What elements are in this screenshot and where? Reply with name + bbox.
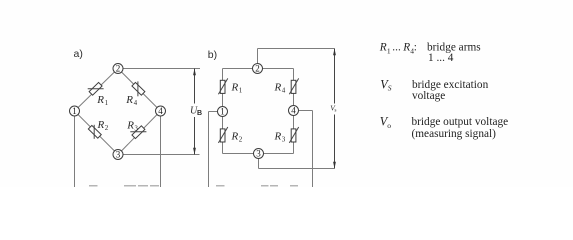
svg-text:...: ...	[392, 42, 401, 54]
svg-text:2: 2	[116, 64, 121, 74]
Vs arrow up	[333, 49, 336, 56]
svg-text:R: R	[125, 94, 133, 106]
svg-text:voltage: voltage	[412, 90, 445, 102]
svg-text::: :	[414, 42, 417, 54]
svg-text:3: 3	[134, 124, 138, 132]
Vs arrow down	[333, 162, 336, 169]
wire left side (bridge b)	[222, 69, 224, 154]
UB measure line lower segment	[194, 117, 196, 155]
svg-text:1: 1	[239, 87, 243, 95]
node 1 (bridge a)	[70, 106, 80, 116]
svg-text:R: R	[96, 94, 104, 106]
wire node1b down	[208, 112, 210, 188]
wire top side (bridge b)	[223, 68, 294, 70]
resistor R1 (bridge b)	[220, 80, 225, 93]
resistor R3 (bridge b)	[291, 129, 296, 142]
svg-text:R: R	[274, 82, 282, 94]
wire right side (bridge b)	[293, 69, 295, 154]
UB arrow down	[193, 148, 196, 155]
wire arm node1-node3 (bridge a)	[75, 111, 119, 155]
wire node1b stub left	[209, 111, 218, 113]
svg-text:3: 3	[282, 136, 286, 144]
svg-text:1: 1	[220, 107, 225, 117]
node 2 (bridge b)	[253, 64, 263, 74]
Vs measure line upper segment	[334, 49, 336, 104]
node 1 (bridge b)	[218, 107, 228, 117]
wire node3 to UB line	[123, 154, 200, 156]
svg-text:1: 1	[72, 106, 77, 116]
wire node2b stub up	[257, 49, 259, 64]
svg-text:2: 2	[239, 136, 243, 144]
svg-text:1 ... 4: 1 ... 4	[428, 52, 454, 64]
node 4 (bridge b)	[289, 106, 299, 116]
svg-text:4: 4	[282, 87, 286, 95]
wire node3b to Vs line	[259, 168, 335, 170]
wire node2 to UB line	[123, 68, 200, 70]
svg-text:R: R	[379, 42, 387, 54]
svg-text:R: R	[126, 119, 134, 131]
UB measure line upper segment	[194, 69, 196, 104]
svg-text:s: s	[335, 109, 337, 114]
svg-text:S: S	[388, 84, 392, 93]
svg-text:B: B	[197, 110, 202, 117]
svg-text:(measuring signal): (measuring signal)	[412, 128, 497, 140]
svg-text:1: 1	[105, 99, 109, 107]
wire node1 down	[74, 116, 76, 187]
resistor R3 (bridge a)	[132, 126, 145, 139]
wire node3b stub down	[258, 159, 260, 169]
svg-text:R: R	[231, 131, 239, 143]
wire arm node3-node4 (bridge a)	[118, 111, 161, 155]
svg-text:b): b)	[208, 49, 217, 61]
svg-text:a): a)	[74, 48, 83, 60]
resistor R2 (bridge a)	[88, 125, 101, 138]
resistor R2 (bridge b)	[220, 129, 225, 142]
svg-text:3: 3	[116, 150, 121, 160]
wire node2b to Vs line	[258, 48, 335, 50]
wire node4 down	[160, 116, 162, 187]
svg-text:1: 1	[387, 46, 391, 55]
resistor R4 (bridge a)	[132, 82, 145, 95]
node 4 (bridge a)	[156, 106, 166, 116]
svg-text:3: 3	[256, 149, 261, 159]
svg-text:R: R	[402, 42, 410, 54]
resistor R4 (bridge b)	[291, 80, 296, 93]
Vs measure line lower segment	[334, 115, 336, 169]
wire node4b down	[312, 111, 314, 188]
resistor R1 (bridge a)	[89, 82, 102, 95]
node 3 (bridge a)	[113, 150, 123, 160]
svg-text:bridge output voltage: bridge output voltage	[412, 116, 509, 128]
node 2 (bridge a)	[113, 64, 123, 74]
svg-text:2: 2	[105, 124, 109, 132]
svg-text:R: R	[231, 82, 239, 94]
wire bottom side (bridge b)	[223, 153, 294, 155]
svg-text:o: o	[387, 121, 391, 130]
svg-text:R: R	[97, 119, 105, 131]
svg-text:R: R	[274, 131, 282, 143]
svg-text:2: 2	[255, 64, 260, 74]
wire arm node2-node4 (bridge a)	[118, 69, 161, 112]
svg-text:4: 4	[291, 106, 296, 116]
wire node4b stub right	[299, 110, 313, 112]
svg-text:4: 4	[158, 106, 163, 116]
bottom cut-off caption fragments	[89, 185, 98, 187]
svg-text:4: 4	[134, 99, 138, 107]
wire arm node1-node2 (bridge a)	[75, 69, 119, 112]
UB arrow up	[193, 69, 196, 76]
node 3 (bridge b)	[254, 149, 264, 159]
